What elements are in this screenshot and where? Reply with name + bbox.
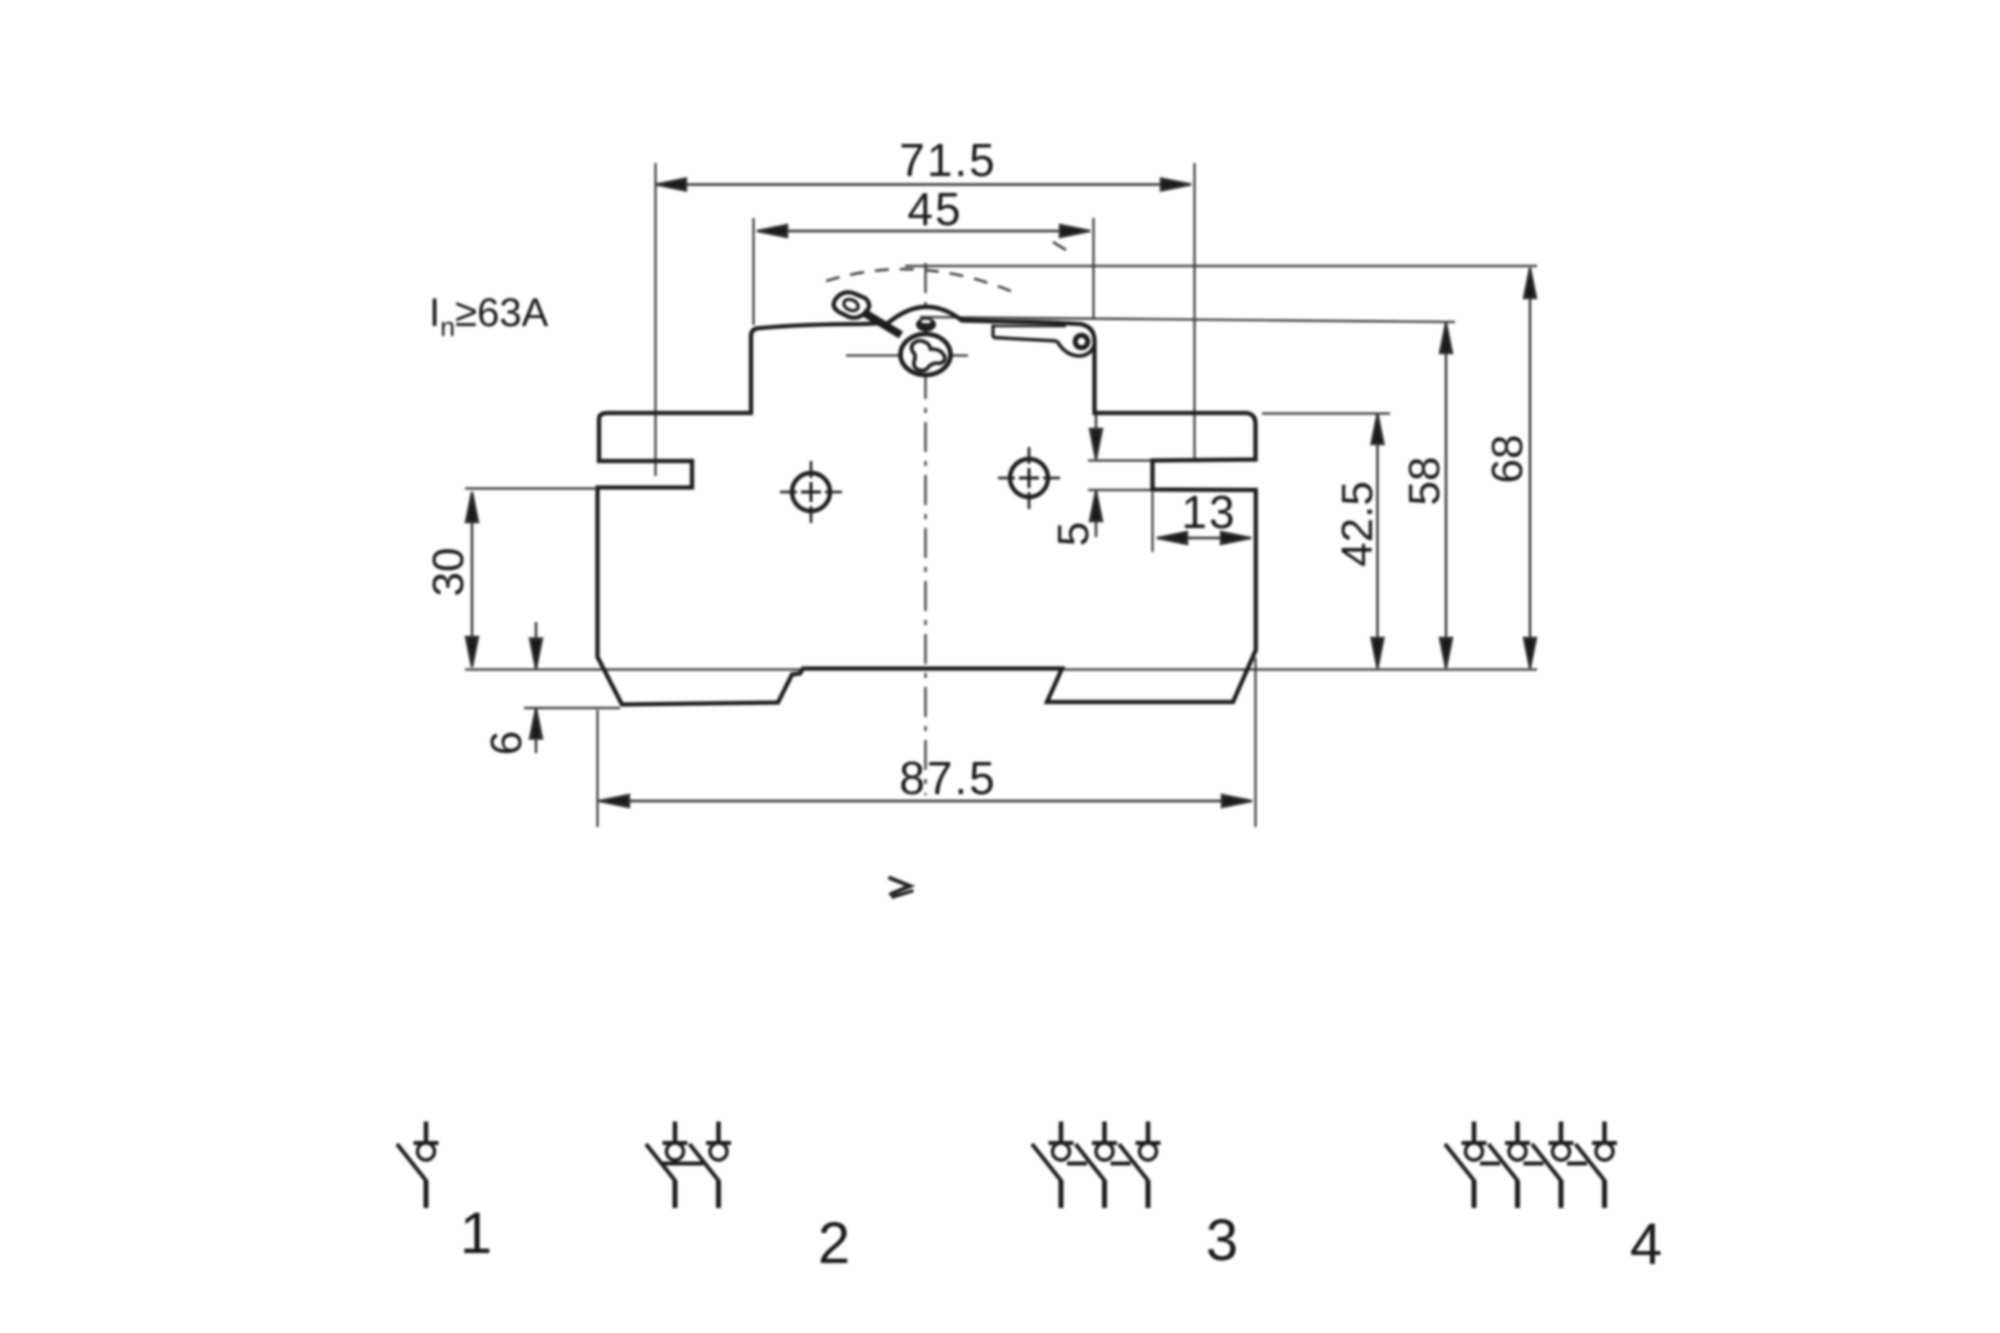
svg-text:4: 4 [1630,1212,1662,1277]
svg-text:3: 3 [1206,1208,1238,1273]
svg-text:30: 30 [424,548,473,597]
svg-text:42.5: 42.5 [1333,481,1382,567]
svg-text:5: 5 [1049,522,1098,546]
svg-text:2: 2 [818,1211,850,1276]
svg-text:58: 58 [1400,457,1449,506]
svg-text:13: 13 [1181,486,1236,538]
svg-text:6: 6 [482,731,531,755]
svg-text:45: 45 [907,183,962,235]
svg-text:71.5: 71.5 [899,134,997,186]
svg-text:68: 68 [1483,435,1532,484]
svg-text:87.5: 87.5 [899,752,997,804]
svg-text:1: 1 [460,1201,492,1266]
